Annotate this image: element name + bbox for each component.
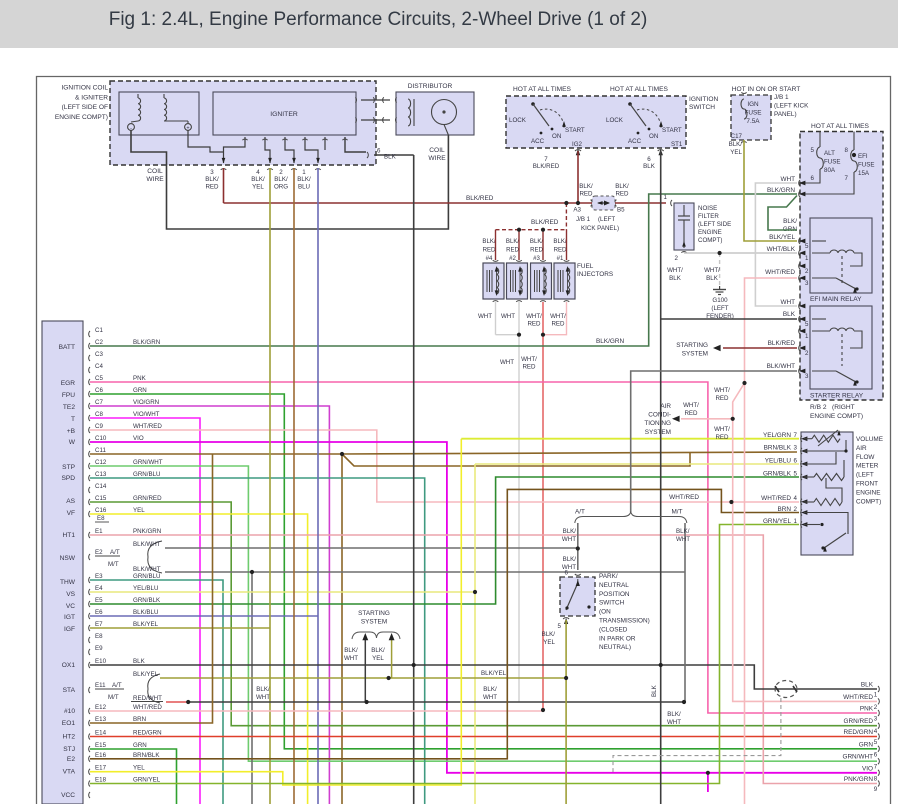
- svg-text:START: START: [565, 127, 585, 134]
- wire C9 WHT/RED to air flow meter pin 4: [90, 430, 799, 502]
- svg-text:#10: #10: [64, 708, 75, 715]
- svg-text:WHT/RED: WHT/RED: [761, 495, 791, 502]
- junction dots: [564, 201, 568, 205]
- wire BRN vertical branch down: [341, 454, 343, 804]
- svg-text:FILTER: FILTER: [698, 213, 719, 220]
- svg-text:BLK/GRN: BLK/GRN: [133, 339, 160, 346]
- IGN fuse dashed box: [731, 95, 771, 140]
- svg-text:VF: VF: [67, 510, 75, 517]
- svg-text:GRN/BLK: GRN/BLK: [763, 471, 792, 478]
- svg-text:3: 3: [794, 445, 798, 452]
- svg-text:ST1: ST1: [671, 141, 683, 148]
- svg-text:GRN/WHT: GRN/WHT: [842, 754, 873, 761]
- svg-text:E15: E15: [95, 742, 107, 749]
- right exit pin brackets: [878, 686, 879, 692]
- svg-text:BLK/RED: BLK/RED: [466, 195, 494, 202]
- svg-text:(ON: (ON: [599, 609, 611, 616]
- svg-text:(LEFT: (LEFT: [711, 305, 728, 312]
- svg-text:RED: RED: [530, 247, 543, 254]
- pin 6 BLK stub from igniter: [345, 137, 366, 152]
- wire C13 GRN/BLU down: [90, 478, 425, 804]
- svg-text:6: 6: [565, 570, 569, 577]
- svg-text:STARTING: STARTING: [358, 610, 390, 617]
- svg-text:WHT/RED: WHT/RED: [133, 704, 162, 711]
- svg-text:WHT/BLK: WHT/BLK: [767, 246, 796, 253]
- svg-text:RED/GRN: RED/GRN: [133, 730, 162, 737]
- svg-text:IGNITER: IGNITER: [270, 111, 298, 118]
- svg-text:C14: C14: [95, 483, 107, 490]
- svg-text:1: 1: [805, 333, 809, 340]
- wire C6 GRN down: [90, 394, 877, 749]
- svg-text:IGT: IGT: [64, 614, 75, 621]
- svg-text:TIONING: TIONING: [644, 420, 671, 427]
- svg-text:4: 4: [794, 495, 798, 502]
- svg-text:VCC: VCC: [61, 792, 75, 799]
- ALT fuse 80A: [819, 132, 821, 148]
- svg-text:IN PARK OR: IN PARK OR: [599, 635, 636, 642]
- air flow meter resistor pin 4: [804, 501, 814, 503]
- svg-text:E9: E9: [95, 645, 103, 652]
- svg-text:BLK/: BLK/: [371, 647, 385, 654]
- svg-text:5: 5: [874, 739, 878, 746]
- svg-text:#4: #4: [486, 255, 493, 262]
- svg-text:CONDI-: CONDI-: [648, 412, 671, 419]
- wire WHT vertical to bottom: [518, 335, 520, 702]
- wire WHT/RED vertical continues to bottom: [744, 383, 746, 804]
- svg-text:GRN/RED: GRN/RED: [844, 718, 874, 725]
- svg-text:C17: C17: [731, 133, 743, 140]
- svg-text:COMPT): COMPT): [698, 237, 722, 244]
- svg-text:ACC: ACC: [628, 138, 642, 145]
- ECM pin E2 fork: [89, 554, 90, 560]
- svg-text:BLK/: BLK/: [344, 647, 358, 654]
- svg-text:SYSTEM: SYSTEM: [682, 351, 708, 358]
- svg-text:YEL: YEL: [133, 507, 145, 514]
- wire WHT/RED injector 3 return down to E12: [542, 302, 544, 711]
- svg-text:EFI MAIN RELAY: EFI MAIN RELAY: [810, 296, 862, 303]
- svg-text:YEL: YEL: [730, 149, 742, 156]
- svg-text:RED: RED: [684, 410, 698, 417]
- svg-text:E4: E4: [95, 585, 103, 592]
- svg-text:C5: C5: [95, 375, 103, 382]
- svg-text:BLK/WHT: BLK/WHT: [133, 566, 161, 573]
- svg-text:RED: RED: [554, 247, 567, 254]
- svg-text:RED: RED: [205, 183, 219, 190]
- svg-text:C15: C15: [95, 495, 107, 502]
- svg-text:E17: E17: [95, 765, 107, 772]
- svg-text:IGF: IGF: [64, 626, 75, 633]
- svg-text:GRN/RED: GRN/RED: [133, 495, 162, 502]
- svg-text:1: 1: [874, 692, 878, 699]
- svg-text:VIO: VIO: [862, 765, 873, 772]
- svg-text:E10: E10: [95, 658, 107, 665]
- wire BLK to starter relay pin 5: [661, 318, 797, 320]
- EFI main relay box: [810, 218, 872, 293]
- svg-text:G100: G100: [712, 297, 728, 304]
- svg-text:DISTRIBUTOR: DISTRIBUTOR: [408, 83, 453, 90]
- svg-text:M/T: M/T: [108, 694, 119, 701]
- svg-text:STJ: STJ: [63, 746, 75, 753]
- svg-text:WHT: WHT: [780, 176, 795, 183]
- svg-text:WHT: WHT: [501, 313, 515, 320]
- svg-text:HOT AT ALL TIMES: HOT AT ALL TIMES: [513, 86, 572, 93]
- svg-text:J/B 1: J/B 1: [576, 216, 591, 223]
- svg-text:ENGINE COMPT): ENGINE COMPT): [810, 413, 863, 420]
- svg-text:E13: E13: [95, 716, 107, 723]
- svg-text:PNK: PNK: [133, 375, 147, 382]
- svg-text:WHT/: WHT/: [714, 426, 730, 433]
- svg-text:BLK/GRN: BLK/GRN: [596, 338, 624, 345]
- page banner: [0, 0, 898, 48]
- svg-text:BLU: BLU: [298, 183, 310, 190]
- wire WHT/RED jog to A/C and exit 2: [733, 383, 877, 701]
- wire WHT/RED injector 1 return: [543, 302, 567, 335]
- svg-text:C1: C1: [95, 327, 103, 334]
- wire C16 YEL down: [90, 514, 308, 804]
- svg-text:(RIGHT: (RIGHT: [832, 404, 855, 411]
- svg-text:BLK/: BLK/: [783, 218, 797, 225]
- svg-text:SPD: SPD: [61, 475, 75, 482]
- svg-text:E14: E14: [95, 730, 107, 737]
- EFI fuse 15A: [853, 132, 855, 151]
- svg-text:BLK/: BLK/: [542, 631, 556, 638]
- svg-text:& IGNITER: & IGNITER: [75, 94, 108, 101]
- wire BLK/ORG igniter pin 2 down: [293, 168, 295, 804]
- A/T M/T bracket: [575, 512, 687, 524]
- wire C8 VIO/WHT down: [90, 418, 200, 804]
- svg-text:VTA: VTA: [63, 769, 76, 776]
- volume air flow meter pins: [801, 436, 802, 442]
- fuel injector #2: [507, 263, 528, 299]
- svg-text:2: 2: [794, 506, 798, 513]
- wire WHT/BLK dashed ground branch: [719, 253, 721, 286]
- svg-text:2: 2: [805, 350, 809, 357]
- svg-text:WHT/: WHT/: [521, 356, 537, 363]
- svg-text:GRN/BLU: GRN/BLU: [133, 573, 161, 580]
- ignition switch dashed box: [506, 96, 686, 148]
- junction block A3 B5 connector: [591, 200, 593, 207]
- svg-text:BLK/: BLK/: [530, 238, 544, 245]
- wire WHT/RED air conditioning branch: [681, 418, 733, 420]
- wire E11 RED/WHT M/T stub: [166, 701, 188, 703]
- svg-text:WHT/: WHT/: [704, 267, 720, 274]
- svg-text:RED: RED: [527, 320, 541, 327]
- svg-text:+B: +B: [67, 428, 76, 435]
- svg-text:PANEL): PANEL): [774, 111, 797, 118]
- svg-text:TE2: TE2: [63, 404, 75, 411]
- wire BLK/YEL C17 ign fuse to EFI main relay: [744, 140, 797, 241]
- svg-text:7: 7: [874, 764, 878, 771]
- svg-text:VOLUME: VOLUME: [856, 436, 883, 443]
- svg-text:5: 5: [794, 471, 798, 478]
- svg-text:2: 2: [675, 255, 679, 262]
- svg-text:7: 7: [845, 175, 849, 182]
- wire E2 BLK/WHT M/T: [165, 571, 685, 573]
- svg-text:1: 1: [805, 255, 809, 262]
- svg-text:BLK/WHT: BLK/WHT: [767, 363, 796, 370]
- wire BLK ST1 ignition switch down: [660, 151, 662, 804]
- wire C10 VIO stub below junction: [707, 773, 709, 792]
- noise filter capacitor: [683, 205, 685, 216]
- svg-text:A/T: A/T: [110, 549, 120, 556]
- starter relay internals: [812, 318, 826, 320]
- wire E6 BLK/BLU to igniter pin 1: [90, 615, 318, 617]
- wire WHT/RED EFI relay branch: [745, 278, 798, 383]
- wire E15 GRN down: [90, 749, 177, 804]
- svg-text:2: 2: [279, 169, 283, 176]
- svg-text:HT2: HT2: [63, 734, 76, 741]
- wire BRN jog branch: [342, 452, 690, 466]
- svg-text:ON: ON: [649, 133, 658, 140]
- wire BLK/GRN elbow to EFI main relay: [768, 196, 797, 231]
- svg-text:STARTING: STARTING: [676, 342, 708, 349]
- svg-text:J/B 1: J/B 1: [774, 94, 789, 101]
- svg-text:BLK: BLK: [669, 275, 682, 282]
- svg-text:WHT/RED: WHT/RED: [669, 494, 699, 501]
- svg-text:BLK/: BLK/: [563, 556, 577, 563]
- svg-text:VC: VC: [66, 603, 75, 610]
- svg-text:7.5A: 7.5A: [746, 118, 760, 125]
- svg-text:T: T: [71, 416, 75, 423]
- svg-text:7: 7: [544, 156, 548, 163]
- svg-text:RED: RED: [579, 190, 593, 197]
- svg-text:RED: RED: [715, 395, 729, 402]
- svg-text:E2: E2: [95, 549, 103, 556]
- svg-text:WIRE: WIRE: [146, 176, 164, 183]
- svg-text:BLK/: BLK/: [553, 238, 567, 245]
- svg-text:C3: C3: [95, 351, 103, 358]
- svg-text:GRN/BLU: GRN/BLU: [133, 471, 161, 478]
- svg-text:PNK/GRN: PNK/GRN: [133, 528, 161, 535]
- air flow meter internal wiring: [804, 440, 846, 451]
- svg-text:WHT: WHT: [256, 694, 270, 701]
- svg-text:GRN/BLK: GRN/BLK: [133, 597, 161, 604]
- svg-text:STARTER RELAY: STARTER RELAY: [810, 393, 864, 400]
- wire E7 BLK/YEL to igniter pin 4: [90, 627, 270, 629]
- wire BLK igniter 6 vertical: [413, 155, 415, 804]
- svg-text:C13: C13: [95, 471, 107, 478]
- EFI main relay pins: [799, 238, 800, 244]
- svg-text:E8: E8: [97, 515, 105, 522]
- svg-text:80A: 80A: [824, 167, 836, 174]
- wire BLK starting system feed: [188, 701, 684, 703]
- svg-text:BLK/: BLK/: [483, 686, 497, 693]
- svg-text:WHT/: WHT/: [667, 267, 683, 274]
- svg-text:8: 8: [845, 147, 849, 154]
- wire C10 VIO to right exit 8: [90, 442, 877, 773]
- ground G100: [719, 286, 721, 289]
- wire BLK/YEL park neutral to bottom: [565, 620, 567, 804]
- wire E18 GRN/YEL to air flow meter pin 1: [90, 525, 799, 784]
- wire BLK/RED IG2 drop: [577, 151, 579, 203]
- svg-text:YEL: YEL: [252, 183, 264, 190]
- svg-text:WHT/: WHT/: [714, 387, 730, 394]
- svg-text:BLK/BLU: BLK/BLU: [133, 609, 158, 616]
- svg-text:GRN: GRN: [133, 742, 147, 749]
- svg-text:4: 4: [874, 728, 878, 735]
- svg-text:WHT/RED: WHT/RED: [133, 423, 162, 430]
- svg-text:FRONT: FRONT: [856, 481, 878, 488]
- igniter pin drops to coil-wire pins: [224, 137, 246, 163]
- svg-text:PNK: PNK: [860, 706, 874, 713]
- svg-text:3: 3: [210, 169, 214, 176]
- svg-text:M/T: M/T: [108, 561, 119, 568]
- wire WHT injector returns: [495, 302, 497, 335]
- wire C5 PNK to right exit 3: [90, 382, 877, 713]
- svg-text:BRN/BLK: BRN/BLK: [764, 445, 792, 452]
- svg-text:R/B 2: R/B 2: [810, 404, 827, 411]
- svg-text:WHT: WHT: [344, 655, 358, 662]
- svg-text:FUSE: FUSE: [824, 159, 841, 166]
- svg-text:FLOW: FLOW: [856, 454, 875, 461]
- ECM pin E11 fork: [89, 687, 90, 693]
- distributor left pins: [395, 97, 396, 102]
- svg-text:BLK/YEL: BLK/YEL: [769, 234, 795, 241]
- svg-text:WHT/RED: WHT/RED: [765, 269, 795, 276]
- coil terminal negative: [128, 124, 135, 131]
- svg-text:YEL/BLU: YEL/BLU: [765, 457, 792, 464]
- svg-text:BRN/BLK: BRN/BLK: [133, 752, 160, 759]
- svg-text:1: 1: [302, 169, 306, 176]
- svg-text:(LEFT: (LEFT: [856, 472, 874, 479]
- ignition switch pole: [531, 102, 535, 106]
- svg-text:BLK: BLK: [643, 163, 656, 170]
- distributor rotor circle: [432, 100, 457, 125]
- svg-text:C6: C6: [95, 387, 103, 394]
- svg-text:BLK/: BLK/: [251, 176, 265, 183]
- svg-text:GRN/YEL: GRN/YEL: [133, 777, 161, 784]
- svg-text:VIO: VIO: [133, 435, 144, 442]
- svg-text:NEUTRAL): NEUTRAL): [599, 644, 631, 651]
- svg-text:KICK PANEL): KICK PANEL): [581, 225, 619, 232]
- wire E1 PNK/GRN to right exit 9: [90, 535, 877, 784]
- wire E4 YEL/BLU to air flow meter pin 6: [90, 591, 475, 593]
- svg-text:2: 2: [805, 268, 809, 275]
- svg-text:RED: RED: [715, 434, 729, 441]
- svg-text:EO1: EO1: [62, 720, 76, 727]
- svg-text:W: W: [69, 439, 76, 446]
- svg-text:WHT: WHT: [483, 694, 497, 701]
- svg-text:WHT/: WHT/: [683, 402, 699, 409]
- svg-text:WHT: WHT: [667, 719, 681, 726]
- svg-text:RED: RED: [615, 190, 629, 197]
- svg-text:EGR: EGR: [61, 380, 76, 387]
- wire C11 BRN to air flow meter pin 3: [90, 453, 342, 455]
- wire E10 BLK to right exit 1: [90, 665, 877, 689]
- svg-text:3: 3: [805, 280, 809, 287]
- svg-text:FUEL: FUEL: [577, 263, 594, 270]
- svg-text:HOT AT ALL TIMES: HOT AT ALL TIMES: [610, 86, 669, 93]
- svg-text:8: 8: [874, 775, 878, 782]
- svg-text:BRN: BRN: [133, 716, 146, 723]
- svg-text:2: 2: [874, 704, 878, 711]
- svg-text:BLK/: BLK/: [676, 528, 690, 535]
- svg-text:AIR: AIR: [660, 403, 671, 410]
- svg-text:BLK/: BLK/: [274, 176, 288, 183]
- svg-text:3: 3: [805, 373, 809, 380]
- svg-text:ON: ON: [552, 133, 561, 140]
- svg-text:BLK/: BLK/: [256, 686, 270, 693]
- wire E12 WHT/RED: [90, 710, 543, 712]
- svg-text:STA: STA: [63, 687, 76, 694]
- svg-text:6: 6: [811, 175, 815, 182]
- svg-text:IG2: IG2: [572, 141, 583, 148]
- svg-text:B5: B5: [617, 207, 625, 214]
- svg-text:BLK/: BLK/: [297, 176, 311, 183]
- svg-text:BLK/YEL: BLK/YEL: [133, 671, 159, 678]
- wire E5 GRN/BLK to air flow meter pin 5: [90, 477, 799, 604]
- svg-text:E7: E7: [95, 621, 103, 628]
- wire C12 GRN/WHT to right exit 7: [90, 466, 877, 761]
- svg-text:(LEFT SIDE OF: (LEFT SIDE OF: [62, 104, 108, 111]
- svg-text:BLK: BLK: [783, 311, 796, 318]
- svg-text:HT1: HT1: [63, 532, 76, 539]
- svg-text:RED/WHT: RED/WHT: [133, 695, 162, 702]
- svg-text:E5: E5: [95, 597, 103, 604]
- svg-text:E6: E6: [95, 609, 103, 616]
- svg-text:WHT/: WHT/: [550, 313, 566, 320]
- wire E17 YEL to air flow meter pin 7: [90, 439, 461, 785]
- svg-text:YEL/BLU: YEL/BLU: [133, 585, 158, 592]
- fuse box pins WHT and BLK/GRN: [799, 180, 800, 186]
- svg-text:RED: RED: [522, 363, 536, 370]
- svg-text:BLK/: BLK/: [729, 141, 743, 148]
- svg-text:WHT: WHT: [780, 299, 795, 306]
- svg-text:EFI: EFI: [858, 153, 868, 160]
- svg-text:START: START: [662, 127, 682, 134]
- svg-text:A/T: A/T: [112, 682, 122, 689]
- svg-text:YEL/GRN: YEL/GRN: [763, 432, 791, 439]
- svg-text:HOT IN ON OR START: HOT IN ON OR START: [732, 86, 801, 93]
- coil secondary winding: [164, 98, 167, 121]
- svg-text:E11: E11: [95, 682, 106, 689]
- wire BLK/YEL starting system arrow: [391, 640, 393, 678]
- distributor coil winding: [408, 99, 411, 126]
- coil wire pin arcs at dashed box edge: [221, 169, 227, 170]
- svg-text:YEL: YEL: [543, 639, 555, 646]
- svg-text:Fig 1: 2.4L, Engine Performanc: Fig 1: 2.4L, Engine Performance Circuits…: [109, 9, 648, 30]
- fuel injector #4: [483, 263, 504, 299]
- wire BLK/RED injector dashed bus: [565, 203, 567, 230]
- svg-text:IGNITION: IGNITION: [689, 96, 719, 103]
- svg-text:COIL: COIL: [429, 147, 445, 154]
- dashed shield path: [613, 698, 781, 772]
- volume air flow meter box: [801, 432, 853, 555]
- svg-text:#3: #3: [533, 255, 540, 262]
- svg-text:FPU: FPU: [62, 392, 75, 399]
- svg-text:5: 5: [811, 147, 815, 154]
- svg-text:BLK/: BLK/: [579, 183, 593, 190]
- svg-text:PNK/GRN: PNK/GRN: [844, 776, 874, 783]
- svg-text:BATT: BATT: [59, 344, 75, 351]
- svg-text:RED/GRN: RED/GRN: [844, 729, 874, 736]
- svg-text:GRN/WHT: GRN/WHT: [133, 459, 163, 466]
- svg-text:YEL: YEL: [133, 765, 145, 772]
- igniter U1 box: [213, 92, 356, 135]
- svg-text:OX1: OX1: [62, 662, 76, 669]
- svg-text:VS: VS: [66, 591, 75, 598]
- svg-text:BLK: BLK: [706, 275, 719, 282]
- svg-text:BLK: BLK: [651, 684, 658, 697]
- svg-text:BLK/: BLK/: [205, 176, 219, 183]
- wire C15 GRN/RED to right exit 4: [90, 502, 877, 726]
- svg-text:ENGINE: ENGINE: [698, 229, 722, 236]
- svg-text:WHT: WHT: [676, 536, 690, 543]
- ECM pin rows: [89, 331, 90, 337]
- svg-text:C8: C8: [95, 411, 103, 418]
- svg-text:BLK/: BLK/: [667, 711, 681, 718]
- svg-text:SWITCH: SWITCH: [599, 600, 625, 607]
